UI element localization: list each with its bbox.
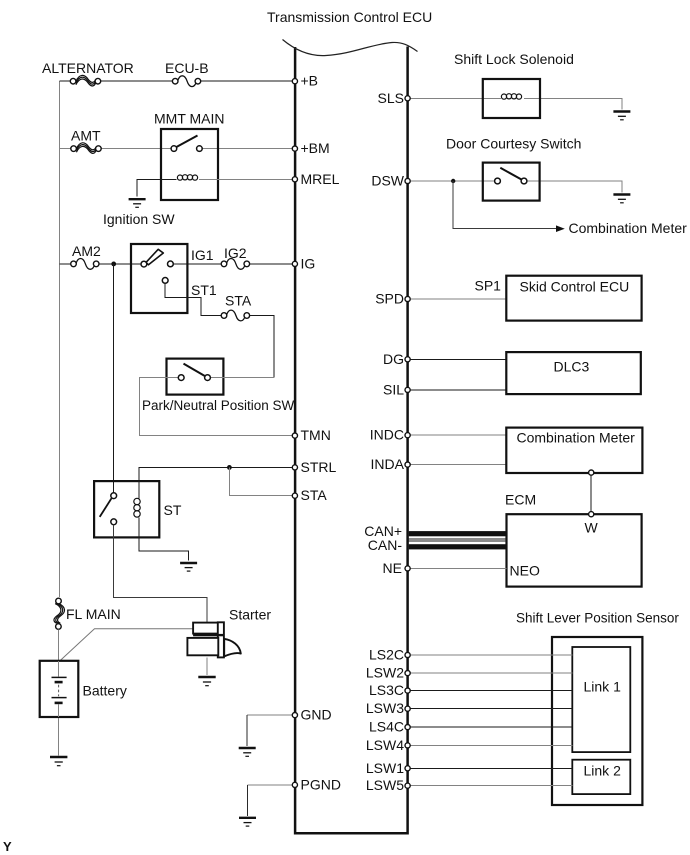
ground under ST coil [180, 563, 197, 571]
wire STRL dot to STA pin [229, 467, 294, 495]
switch Door Courtesy box [483, 163, 540, 201]
svg-text:FL MAIN: FL MAIN [66, 606, 121, 622]
svg-text:W: W [585, 520, 599, 536]
wire PGND row [248, 784, 295, 786]
svg-text:LS4C: LS4C [369, 719, 404, 735]
ground battery [50, 757, 67, 766]
svg-text:IG: IG [301, 255, 316, 271]
wire NE row [409, 567, 507, 569]
pin IG [292, 261, 297, 266]
switch Door Courtesy blade [500, 168, 523, 181]
svg-text:MREL: MREL [301, 171, 340, 187]
wire starter to ground [206, 657, 208, 675]
svg-text:Skid Control ECU: Skid Control ECU [520, 279, 630, 295]
relay MMT MAIN box [161, 129, 218, 200]
svg-text:NEO: NEO [510, 563, 540, 579]
svg-text:+B: +B [301, 73, 319, 89]
coil ST vertical [134, 481, 189, 561]
ECU U1 Transmission Control ECU box outline [295, 47, 408, 834]
box Shift Lever Position Sensor outer [552, 637, 642, 805]
switch Park/Neutral Position SW box [167, 359, 224, 395]
svg-text:CAN-: CAN- [368, 537, 403, 553]
wire ST1 route [165, 283, 274, 377]
svg-text:SPD: SPD [375, 291, 404, 307]
svg-text:LSW1: LSW1 [366, 760, 404, 776]
pin LSW2 [405, 671, 410, 676]
wire +B row [60, 80, 294, 82]
svg-text:LS3C: LS3C [369, 682, 404, 698]
svg-text:STA: STA [301, 487, 328, 503]
wire W between Combination Meter and ECM [590, 475, 592, 512]
svg-text:Transmission Control ECU: Transmission Control ECU [267, 9, 432, 25]
ground PGND [239, 818, 256, 826]
wire AMT row [60, 148, 294, 150]
switch ignition contacts [141, 261, 173, 283]
wire STRL row [139, 467, 294, 481]
pin ECM top [589, 512, 594, 517]
wire GND to ground [246, 715, 248, 746]
svg-text:ST: ST [164, 502, 182, 518]
pin LS3C [405, 688, 410, 693]
svg-text:DSW: DSW [371, 173, 404, 189]
solenoid box Shift Lock [483, 79, 540, 118]
svg-text:LSW5: LSW5 [366, 777, 404, 793]
svg-text:DLC3: DLC3 [554, 359, 590, 375]
wire DG row [409, 358, 506, 360]
pin LS4C [405, 725, 410, 730]
wire DSW row [409, 181, 622, 193]
battery cell plates [52, 661, 67, 717]
pin +BM [292, 146, 297, 151]
svg-text:SP1: SP1 [475, 278, 502, 294]
wire LS2C row [409, 654, 572, 656]
svg-text:INDC: INDC [370, 427, 404, 443]
wire LSW2 row [409, 672, 572, 674]
svg-text:INDA: INDA [371, 456, 405, 472]
svg-text:AM2: AM2 [72, 243, 101, 259]
pin +B [292, 79, 297, 84]
wire LSW3 row [409, 708, 572, 710]
box ECM [507, 514, 642, 586]
pin LSW1 [405, 766, 410, 771]
pin INDC [405, 433, 410, 438]
switch P/N blade [184, 364, 205, 376]
svg-text:MMT MAIN: MMT MAIN [154, 111, 225, 127]
svg-text:LSW2: LSW2 [366, 665, 404, 681]
fusible link ALTERNATOR [70, 75, 100, 86]
box Link 1 [572, 647, 630, 752]
pin LSW4 [405, 743, 410, 748]
fuse AM2 [71, 259, 99, 270]
pin STRL [292, 465, 297, 470]
svg-text:TMN: TMN [301, 427, 331, 443]
svg-text:Combination Meter: Combination Meter [569, 220, 688, 236]
wire LSW5 row [409, 785, 572, 787]
box Combination Meter [506, 428, 642, 473]
pin SLS [405, 96, 410, 101]
node junction dot STRL [227, 465, 232, 470]
svg-text:Link 1: Link 1 [584, 679, 622, 695]
svg-text:DG: DG [383, 351, 404, 367]
starter motor M1 [187, 622, 240, 657]
ground DSW right [613, 195, 630, 203]
svg-text:+BM: +BM [301, 140, 330, 156]
svg-text:STRL: STRL [301, 459, 337, 475]
svg-text:SIL: SIL [383, 381, 404, 397]
node junction dot DSW [451, 179, 455, 183]
wire MREL row [199, 178, 294, 180]
svg-text:AMT: AMT [71, 128, 101, 144]
svg-text:ST1: ST1 [191, 282, 217, 298]
relay ST contacts [111, 493, 117, 525]
svg-text:NE: NE [383, 560, 402, 576]
switch ignition key blade [146, 249, 163, 264]
wire +B row left vertical feed [59, 81, 61, 597]
pin PGND [292, 782, 297, 787]
pin DSW [405, 178, 410, 183]
wire battery to ground [58, 718, 60, 756]
wire CAN thin pair [409, 539, 507, 541]
wire CAN- bus [409, 544, 507, 549]
wire FL MAIN to battery [57, 629, 59, 660]
svg-text:ALTERNATOR: ALTERNATOR [42, 60, 134, 76]
wire GND row [247, 714, 294, 716]
fuse STA [221, 310, 249, 321]
fuse ECU-B [172, 76, 200, 87]
svg-text:Park/Neutral Position SW: Park/Neutral Position SW [142, 398, 295, 413]
box DLC3 [506, 352, 641, 394]
battery box [40, 661, 79, 717]
svg-text:Door Courtesy Switch: Door Courtesy Switch [446, 136, 581, 152]
box Link 2 [572, 760, 630, 794]
coil Shift Lock Solenoid [501, 94, 521, 99]
wire LSW4 row [409, 744, 572, 746]
relay ST switch blade [100, 498, 112, 517]
wire MMT coil to ground [137, 179, 176, 196]
wire relay ST to Starter [114, 525, 207, 622]
pin NE [405, 566, 410, 571]
fusible link FL MAIN vertical [54, 598, 65, 629]
svg-text:Link 2: Link 2 [584, 763, 622, 779]
svg-text:LS2C: LS2C [369, 647, 404, 663]
svg-text:ECU-B: ECU-B [165, 60, 209, 76]
switch Door Courtesy contacts [495, 178, 527, 184]
pin SIL [405, 387, 410, 392]
wire P/N right contact to STA vertical [210, 377, 274, 379]
pin SPD [405, 296, 410, 301]
switch Ignition SW box [131, 244, 187, 313]
box Skid Control ECU [506, 276, 641, 321]
ground under MMT MAIN coil [129, 199, 146, 207]
pin LS2C [405, 652, 410, 657]
wire LS3C row [409, 690, 572, 692]
svg-text:Shift Lever Position Sensor: Shift Lever Position Sensor [516, 611, 679, 626]
svg-text:LSW4: LSW4 [366, 737, 404, 753]
wire battery to starter diagonal [61, 629, 194, 661]
ground GND [239, 748, 256, 756]
wire SIL row [409, 389, 506, 391]
pin TMN [292, 433, 297, 438]
pin DG [405, 357, 410, 362]
node junction dot AM2 [111, 262, 116, 267]
relay ST box [94, 481, 159, 537]
ECU torn top edge wave [283, 40, 418, 56]
wire AM2 dot down to ST relay [113, 264, 115, 493]
wire INDA row [409, 464, 506, 466]
svg-text:LSW3: LSW3 [366, 700, 404, 716]
svg-text:Battery: Battery [83, 683, 127, 699]
wire SLS row [409, 98, 622, 109]
pin MREL [292, 177, 297, 182]
svg-text:Combination Meter: Combination Meter [517, 430, 636, 446]
wire CAN+ bus [409, 531, 507, 536]
svg-text:IG1: IG1 [191, 247, 214, 263]
svg-text:IG2: IG2 [224, 245, 247, 261]
svg-text:Ignition SW: Ignition SW [103, 211, 175, 227]
wire AM2 row [60, 263, 294, 265]
coil MMT MAIN [177, 175, 197, 181]
wire P/N left contact to TMN [140, 378, 294, 436]
wire INDC row [409, 434, 506, 436]
pin INDA [405, 462, 410, 467]
svg-text:Shift Lock Solenoid: Shift Lock Solenoid [454, 51, 574, 67]
wire PGND to ground [247, 785, 249, 816]
relay MMT MAIN switch [171, 136, 202, 152]
svg-text:Starter: Starter [229, 607, 271, 623]
wire SPD row [409, 298, 506, 300]
svg-text:PGND: PGND [301, 776, 341, 792]
fusible link AMT [71, 143, 101, 154]
wire LSW1 row [409, 767, 572, 769]
svg-text:STA: STA [225, 293, 252, 309]
fuse IG2 [221, 259, 249, 270]
pin STA [292, 493, 297, 498]
pin LSW3 [405, 706, 410, 711]
switch P/N contacts [178, 375, 210, 381]
pin LSW5 [405, 783, 410, 788]
wire DSW branch to Combination Meter [453, 181, 556, 229]
svg-text:Y: Y [3, 839, 12, 854]
svg-text:GND: GND [301, 707, 332, 723]
pin Combination Meter bottom [589, 470, 594, 475]
svg-text:ECM: ECM [505, 492, 536, 508]
svg-text:SLS: SLS [378, 90, 404, 106]
ground starter [198, 677, 215, 686]
wire LS4C row [409, 726, 572, 728]
pin GND [292, 713, 297, 718]
arrow to Combination Meter [556, 225, 565, 232]
ground SLS right [613, 112, 630, 120]
